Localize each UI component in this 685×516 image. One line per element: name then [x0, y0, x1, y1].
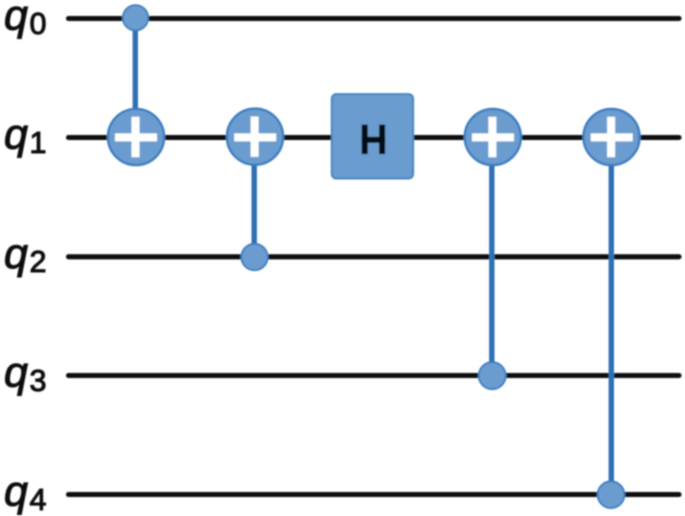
- wire q3: [69, 373, 680, 378]
- svg-text:2: 2: [30, 245, 47, 279]
- wire q1: [69, 135, 680, 140]
- CNOT target CX3 on q1: [465, 109, 521, 165]
- CNOT target CX4 on q1: [583, 109, 639, 165]
- wire: control line CX3 (q1 to q3): [489, 138, 494, 376]
- CNOT target CX2 on q1: [227, 109, 283, 165]
- gate H (Hadamard box on q1): [332, 94, 413, 178]
- svg-text:q: q: [4, 468, 28, 516]
- svg-text:0: 0: [30, 7, 47, 41]
- wire: control line CX1 (q0 to q1): [133, 19, 138, 138]
- svg-text:q: q: [4, 111, 28, 159]
- wire: control line CX2 (q1 to q2): [251, 138, 256, 257]
- label q4: [4, 468, 47, 516]
- svg-text:3: 3: [30, 364, 47, 398]
- svg-text:q: q: [4, 230, 28, 278]
- wire: control line CX4 (q1 to q4): [609, 138, 614, 495]
- CNOT target CX1 on q1: [108, 109, 164, 165]
- control dot CX3 on q3: [479, 362, 506, 389]
- control dot CX1 on q0: [123, 5, 148, 30]
- svg-text:q: q: [4, 349, 28, 397]
- label q1: [4, 111, 46, 160]
- wire q4: [69, 492, 680, 497]
- svg-text:4: 4: [30, 483, 47, 516]
- svg-text:1: 1: [30, 126, 47, 160]
- svg-text:q: q: [4, 0, 28, 40]
- control dot CX4 on q4: [598, 481, 625, 508]
- label q2: [4, 230, 46, 279]
- control dot CX2 on q2: [241, 244, 267, 270]
- label q0: [4, 0, 46, 41]
- label q3: [4, 349, 46, 398]
- wire q2: [69, 254, 680, 259]
- wire q0: [69, 16, 680, 21]
